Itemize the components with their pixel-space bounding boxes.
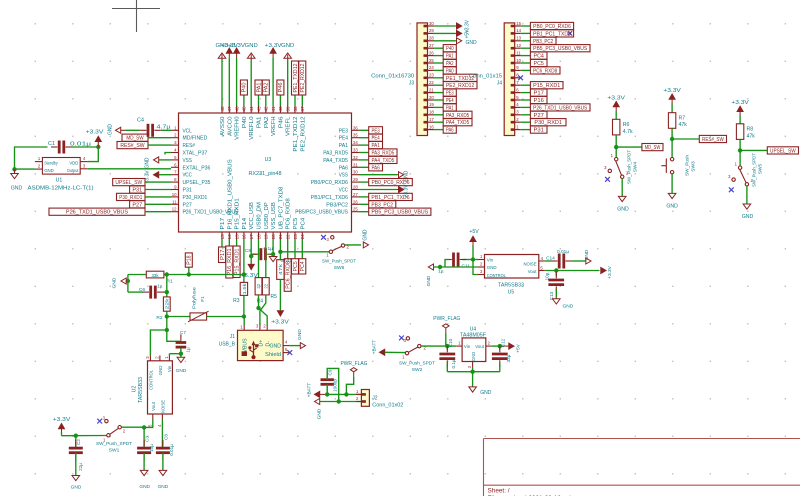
svg-text:R7: R7 xyxy=(679,115,686,121)
junction C13 node xyxy=(554,268,558,272)
power +3.3V xyxy=(86,130,104,148)
svg-text:+BATT: +BATT xyxy=(307,383,313,398)
svg-text:MD_SW: MD_SW xyxy=(645,145,661,151)
svg-text:47k: 47k xyxy=(747,133,756,139)
power +3.3V (J3 pin30) xyxy=(434,19,471,33)
wire SW2 to Vin xyxy=(421,345,456,347)
svg-text:P27: P27 xyxy=(132,202,142,208)
svg-text:TA48M05F: TA48M05F xyxy=(460,333,486,339)
svg-text:C2: C2 xyxy=(76,439,81,445)
label UPSEL_SW xyxy=(113,179,171,187)
svg-text:VSS: VSS xyxy=(339,173,349,179)
ground (SW6) xyxy=(345,229,369,248)
svg-text:SW1: SW1 xyxy=(109,448,120,454)
svg-text:SW_Push_SPDT: SW_Push_SPDT xyxy=(627,150,633,184)
power GND arrow at VSS pin5 xyxy=(145,157,172,169)
power GND (top pin 44) xyxy=(245,43,258,106)
power flag PWR_FLAG (U4) xyxy=(433,316,460,346)
label P27 (J4 pin3) xyxy=(521,111,547,119)
wire F1 to VBUS xyxy=(207,317,245,326)
svg-text:0.1µ: 0.1µ xyxy=(264,246,274,252)
svg-text:P30_RXD1: P30_RXD1 xyxy=(534,120,562,126)
junction F1 node xyxy=(165,314,169,318)
svg-text:14: 14 xyxy=(227,234,232,240)
svg-text:34: 34 xyxy=(353,140,358,145)
label PC5 (U3 pin23) xyxy=(292,240,299,275)
svg-text:R6: R6 xyxy=(623,122,630,128)
capacitor C8 0.01µ xyxy=(156,434,174,461)
svg-text:27: 27 xyxy=(429,43,434,48)
svg-text:C7: C7 xyxy=(180,330,186,336)
svg-text:P17: P17 xyxy=(534,91,545,97)
svg-text:P30_RXD1: P30_RXD1 xyxy=(183,195,208,201)
label PE1_TXD12 (top) xyxy=(292,61,299,106)
power flag PWR_FLAG (J2) xyxy=(341,361,368,395)
svg-text:P40: P40 xyxy=(446,46,454,52)
svg-text:21: 21 xyxy=(278,234,283,240)
svg-text:47: 47 xyxy=(227,106,232,112)
svg-text:TAR5SB33: TAR5SB33 xyxy=(498,283,524,289)
svg-text:PA4_TXD5: PA4_TXD5 xyxy=(372,158,395,164)
svg-text:+BATT: +BATT xyxy=(371,340,377,355)
svg-text:C8: C8 xyxy=(245,248,251,254)
label P40 (top) xyxy=(240,80,247,106)
svg-text:XTAL_P37: XTAL_P37 xyxy=(183,151,208,157)
svg-text:39: 39 xyxy=(286,106,291,112)
svg-text:41: 41 xyxy=(271,106,276,112)
power +3.3V arrow at VCC pin7 xyxy=(145,170,172,184)
junction flag node xyxy=(344,392,348,396)
label P18 xyxy=(185,253,192,275)
capacitor C10 0.1µ xyxy=(439,338,456,368)
svg-text:USB_B: USB_B xyxy=(219,341,236,347)
svg-text:+3.3V: +3.3V xyxy=(265,43,283,49)
label PC5 (J4 pin10) xyxy=(521,59,547,67)
switch SW4 SW_Push_SPDT xyxy=(604,147,638,184)
regulator U2 TAR5SB33 xyxy=(132,356,173,427)
svg-text:VREFH0: VREFH0 xyxy=(235,117,241,140)
power +3.3V down (pin21) xyxy=(271,279,289,325)
svg-text:13: 13 xyxy=(516,36,521,41)
svg-text:PB5_PC3_USB0_VBUS: PB5_PC3_USB0_VBUS xyxy=(533,46,588,52)
svg-text:4.7k: 4.7k xyxy=(623,129,633,135)
power +5V (U4 out) xyxy=(503,343,522,353)
ground xyxy=(11,169,23,191)
svg-text:GND: GND xyxy=(145,157,151,169)
svg-text:33µ: 33µ xyxy=(506,354,511,362)
svg-text:22: 22 xyxy=(429,80,434,85)
svg-text:+3.3V: +3.3V xyxy=(228,43,246,49)
svg-text:+3.3V: +3.3V xyxy=(607,265,613,278)
label PA3_RXD5 (J3 pin18) xyxy=(434,111,473,119)
svg-text:Vin: Vin xyxy=(464,344,471,349)
capacitor C12 33µ xyxy=(492,338,511,366)
svg-text:16: 16 xyxy=(429,124,434,129)
ground (SW5) xyxy=(742,186,754,220)
svg-text:27: 27 xyxy=(353,192,358,197)
svg-text:PWR_FLAG: PWR_FLAG xyxy=(433,316,460,322)
svg-text:PA4_TXD5: PA4_TXD5 xyxy=(446,120,469,126)
label PA6 (J3 pin16) xyxy=(434,126,457,134)
svg-text:RES#: RES# xyxy=(183,143,195,149)
svg-text:PC4: PC4 xyxy=(534,54,545,60)
svg-text:UPSEL_SW: UPSEL_SW xyxy=(115,180,142,186)
svg-text:GND: GND xyxy=(466,40,478,46)
wire UB_PC7 pin21 xyxy=(279,240,281,252)
svg-text:Polyfuse: Polyfuse xyxy=(192,287,198,309)
capacitor C5 1µ xyxy=(128,284,167,299)
wire C1 left to GND xyxy=(15,147,48,169)
svg-text:25: 25 xyxy=(353,207,358,212)
svg-text:R3: R3 xyxy=(233,298,240,304)
svg-text:J1: J1 xyxy=(230,334,236,340)
svg-text:P31: P31 xyxy=(183,188,192,194)
wire 33k rail xyxy=(128,274,244,276)
svg-text:UB_PC7_TXD8: UB_PC7_TXD8 xyxy=(278,187,284,230)
label P26_TXD1_USB0_VBUS xyxy=(49,208,171,216)
svg-text:R8: R8 xyxy=(747,127,754,133)
wire Vin/CONTROL xyxy=(473,260,478,275)
svg-text:PE2_RXD12: PE2_RXD12 xyxy=(446,83,475,89)
svg-text:VSS: VSS xyxy=(183,158,193,164)
svg-text:MD/FINED: MD/FINED xyxy=(183,136,208,142)
svg-text:P30_RXD1: P30_RXD1 xyxy=(119,195,142,201)
svg-text:SW_Push: SW_Push xyxy=(685,155,691,176)
svg-text:C3: C3 xyxy=(145,436,150,442)
label P26_TXD1_USB0_VBUS (J4 pin4) xyxy=(521,104,590,112)
svg-text:R4: R4 xyxy=(257,299,264,305)
svg-text:Vin: Vin xyxy=(167,365,172,372)
svg-text:PA1: PA1 xyxy=(446,54,454,60)
junction VCC_USB xyxy=(249,254,253,258)
no-connect J1 Shield xyxy=(287,350,292,355)
svg-text:36: 36 xyxy=(353,125,358,130)
svg-text:+5V: +5V xyxy=(516,343,522,352)
svg-text:GND: GND xyxy=(584,249,590,260)
label MD_SW xyxy=(122,134,171,142)
svg-text:GND: GND xyxy=(176,368,187,374)
svg-text:C4: C4 xyxy=(137,118,144,124)
svg-text:47k: 47k xyxy=(679,122,688,128)
wire NOISE to C8b xyxy=(161,420,163,448)
label PE4 (U3 pin35) xyxy=(359,134,383,142)
svg-text:+5V: +5V xyxy=(469,229,479,235)
svg-text:PE4: PE4 xyxy=(339,136,348,142)
svg-text:+3.3V: +3.3V xyxy=(86,130,104,136)
svg-text:45: 45 xyxy=(242,106,247,112)
svg-text:GND: GND xyxy=(108,124,114,136)
svg-text:PB1_PC1_TXD6: PB1_PC1_TXD6 xyxy=(371,195,409,201)
ground (rail left) xyxy=(112,275,131,293)
svg-text:Conn_01x16730: Conn_01x16730 xyxy=(371,74,414,80)
svg-text:33: 33 xyxy=(353,148,358,153)
svg-text:P15_RXD1: P15_RXD1 xyxy=(235,198,241,229)
label PE2_RXD12 (top) xyxy=(299,61,306,106)
ground (C13) xyxy=(553,289,574,310)
svg-text:GND: GND xyxy=(112,277,118,288)
power GND (U3 pin30) xyxy=(359,170,410,182)
resistor R2 22k xyxy=(156,297,170,321)
label PA1 (U3 pin34) xyxy=(359,142,383,150)
svg-text:P46: P46 xyxy=(278,117,284,129)
svg-text:20: 20 xyxy=(429,95,434,100)
svg-text:PC5: PC5 xyxy=(293,218,299,230)
junction rail/R2 xyxy=(165,272,169,276)
svg-text:NOISE: NOISE xyxy=(160,400,165,413)
label P16_RXD1 (U3 pin14) xyxy=(226,240,233,279)
svg-text:GND: GND xyxy=(71,485,82,491)
svg-text:PE4: PE4 xyxy=(371,136,379,142)
svg-text:U2: U2 xyxy=(132,386,138,393)
svg-text:SW_Push_SPDT: SW_Push_SPDT xyxy=(752,153,758,187)
erc marker J4 pin14 xyxy=(568,31,572,35)
svg-text:20: 20 xyxy=(271,234,276,240)
junction gnd rail xyxy=(470,370,474,374)
label PB5_PC3_USB0_VBUS (J4 pin12) xyxy=(521,45,590,53)
svg-text:47k: 47k xyxy=(278,263,283,275)
junction C11/GND xyxy=(438,265,442,269)
svg-text:43: 43 xyxy=(256,106,261,112)
wire P14 to R3 xyxy=(243,240,245,283)
svg-text:Conn_01x02: Conn_01x02 xyxy=(372,402,403,408)
svg-text:GND: GND xyxy=(487,265,497,270)
svg-text:22: 22 xyxy=(256,283,261,288)
svg-text:GND: GND xyxy=(742,214,754,220)
ground (SW4) xyxy=(617,179,629,213)
svg-text:TAR5SB33: TAR5SB33 xyxy=(138,377,144,403)
svg-text:21: 21 xyxy=(429,87,434,92)
capacitor C3 10µ xyxy=(137,427,154,461)
wire VCC_USB pin17 xyxy=(250,240,252,266)
label PE3 (J3 pin21) xyxy=(434,89,457,97)
resistor R 47k (pin21) xyxy=(277,260,284,280)
wire C10 to gnd rail xyxy=(447,363,500,372)
usb connector J1 USB_B xyxy=(219,324,290,361)
svg-text:P40: P40 xyxy=(242,117,248,129)
svg-text:C6: C6 xyxy=(139,287,145,293)
svg-text:R5: R5 xyxy=(271,294,278,300)
svg-text:U5: U5 xyxy=(508,289,515,295)
wire Vout to node xyxy=(144,420,153,428)
junction MD_SW node xyxy=(614,145,618,149)
svg-text:+3.3V: +3.3V xyxy=(271,320,289,326)
svg-text:11: 11 xyxy=(172,199,177,204)
switch SW1 SW_Push_SPDT xyxy=(96,416,132,454)
svg-text:R2: R2 xyxy=(156,315,162,321)
label PC6_RXD8 (J4 pin9) xyxy=(521,67,560,75)
svg-text:PB1/PC1_TXD6: PB1/PC1_TXD6 xyxy=(311,195,348,201)
svg-text:29: 29 xyxy=(353,177,358,182)
svg-text:UPSEL_P35: UPSEL_P35 xyxy=(183,180,211,186)
junction C10 node xyxy=(445,344,449,348)
svg-text:PC4: PC4 xyxy=(300,218,306,230)
svg-text:PB3_PC2: PB3_PC2 xyxy=(533,39,553,45)
svg-text:GND: GND xyxy=(471,352,476,361)
junction P14/R1 node xyxy=(242,272,246,276)
connector J3 xyxy=(371,21,434,136)
sheet origin crosshair xyxy=(112,0,160,32)
capacitor C9 1000p xyxy=(321,369,338,394)
svg-text:P16_RXD1_USB0_VBUS: P16_RXD1_USB0_VBUS xyxy=(227,159,233,230)
svg-text:RES#_SW: RES#_SW xyxy=(120,143,144,149)
svg-text:PE2_RXD12: PE2_RXD12 xyxy=(300,63,306,92)
wire U1 GND pin2 xyxy=(15,168,35,170)
svg-text:31: 31 xyxy=(353,162,358,167)
svg-text:30: 30 xyxy=(353,170,358,175)
label P30_RXD1 xyxy=(117,193,172,201)
svg-text:PB0_PC0_RXD6: PB0_PC0_RXD6 xyxy=(533,24,571,30)
power +5V (J3 pin29) xyxy=(434,29,471,39)
label MD_SW (switch) xyxy=(616,144,663,152)
resistor R4 22 xyxy=(255,278,263,305)
resistor R1 33k xyxy=(146,271,173,284)
wire Vout node xyxy=(492,345,503,347)
svg-text:23: 23 xyxy=(429,73,434,78)
label PA6 (U3 pin31) xyxy=(359,164,383,172)
resistor R6 4.7k xyxy=(613,119,634,135)
svg-text:C10: C10 xyxy=(448,338,453,347)
wire C9 top loop xyxy=(327,368,339,401)
svg-text:SW_Push_SPDT: SW_Push_SPDT xyxy=(322,259,356,265)
svg-text:RES#_SW: RES#_SW xyxy=(702,137,724,143)
junction +3.3V node xyxy=(96,145,100,149)
capacitor C11 1µ xyxy=(438,253,473,275)
wire XTAL stub xyxy=(165,153,171,155)
label PB0_PC0_RXD6 (U3 pin29) xyxy=(359,179,412,187)
svg-text:PA1: PA1 xyxy=(446,105,454,111)
label PE2_RXD12 (J3 pin22) xyxy=(434,82,478,90)
svg-text:12: 12 xyxy=(172,207,177,212)
svg-text:USB0_DP: USB0_DP xyxy=(264,202,270,230)
power +3.3V (R8) xyxy=(731,100,749,124)
svg-text:GND: GND xyxy=(480,390,492,396)
junction C9 bottom xyxy=(325,392,329,396)
junction pin21 node xyxy=(278,250,282,254)
svg-text:26: 26 xyxy=(353,199,358,204)
svg-text:VREFL: VREFL xyxy=(286,116,292,136)
svg-text:SW_Push_SPDT: SW_Push_SPDT xyxy=(96,441,132,447)
resistor R7 47k xyxy=(668,113,687,129)
regulator U4 TA48M05F xyxy=(456,327,491,369)
power GND arrow at C4 xyxy=(108,124,127,136)
junction GND node xyxy=(12,167,16,171)
resistor R3 1.5k xyxy=(233,282,248,304)
svg-text:+5V: +5V xyxy=(465,29,471,39)
svg-text:P31: P31 xyxy=(534,128,545,134)
svg-text:U1: U1 xyxy=(56,178,63,184)
svg-text:PE2_RXD12: PE2_RXD12 xyxy=(300,117,306,152)
svg-text:46: 46 xyxy=(234,106,239,112)
svg-text:19: 19 xyxy=(429,102,434,107)
svg-text:33k: 33k xyxy=(151,273,159,278)
label PA2 (top) xyxy=(262,80,269,106)
svg-text:0.01µ: 0.01µ xyxy=(557,249,569,255)
svg-text:GND: GND xyxy=(44,168,54,173)
label PC6_RXD8 (U3 pin22) xyxy=(284,240,291,292)
wire SW1 to U2 node xyxy=(121,426,144,428)
svg-text:VCC_USB: VCC_USB xyxy=(249,202,255,230)
svg-text:PA3_RXD5: PA3_RXD5 xyxy=(372,151,395,157)
svg-text:44: 44 xyxy=(249,106,254,112)
svg-text:SW_Push_SPDT: SW_Push_SPDT xyxy=(399,361,435,367)
svg-text:P26_TXD1_USB0_VBUS: P26_TXD1_USB0_VBUS xyxy=(533,105,588,111)
wire U1 VDD xyxy=(88,147,99,162)
svg-text:10: 10 xyxy=(172,192,177,197)
label P27 xyxy=(130,201,171,209)
junction C7/Vin xyxy=(179,352,183,356)
wire D+/D- crossover xyxy=(256,295,267,326)
wire C7 bottom xyxy=(180,348,182,354)
svg-text:VCL: VCL xyxy=(183,128,192,134)
svg-text:P46: P46 xyxy=(278,82,284,92)
svg-text:PC5: PC5 xyxy=(534,61,545,67)
wire R3 to VBUS xyxy=(242,295,246,318)
svg-text:PA1: PA1 xyxy=(371,143,379,149)
svg-text:J3: J3 xyxy=(409,81,415,87)
wire R47k top xyxy=(279,252,281,260)
svg-text:22: 22 xyxy=(286,234,291,240)
label PA4_TXD5 (U3 pin32) xyxy=(359,156,397,164)
svg-text:35: 35 xyxy=(353,133,358,138)
power +3.3V (U3 pin28) xyxy=(359,184,410,198)
label PE3 (U3 pin36) xyxy=(359,127,383,135)
label PB3_PC2 (U3 pin26) xyxy=(359,201,396,209)
svg-text:PB1_PC1_TXD6: PB1_PC1_TXD6 xyxy=(533,31,571,37)
wire USB0_DM pin18 xyxy=(258,240,260,278)
svg-text:28: 28 xyxy=(429,36,434,41)
power GND (J3 pin28) xyxy=(434,38,478,46)
ground (C14) xyxy=(584,249,591,264)
svg-text:17: 17 xyxy=(249,234,254,240)
wire R2 to F1 rail xyxy=(166,311,168,330)
connector J4 xyxy=(469,21,522,136)
svg-text:38: 38 xyxy=(293,106,298,112)
power +3.3V (U5 out) xyxy=(601,265,613,278)
svg-text:Vout: Vout xyxy=(151,401,156,411)
wire R6 to node xyxy=(615,135,617,147)
svg-text:19: 19 xyxy=(264,234,269,240)
power +3.3V (R7) xyxy=(663,88,681,113)
svg-text:16: 16 xyxy=(242,234,247,240)
svg-text:15: 15 xyxy=(516,21,521,26)
label PB1_PC1_TXD6 (J4 pin14) xyxy=(521,30,574,38)
capacitor C14 0.01µ xyxy=(545,249,585,269)
svg-text:RX231_pin48: RX231_pin48 xyxy=(249,171,282,177)
svg-text:PE1_TXD12: PE1_TXD12 xyxy=(293,117,299,152)
svg-text:15: 15 xyxy=(234,234,239,240)
label PA2 (J3 pin25) xyxy=(434,59,457,67)
svg-text:GND: GND xyxy=(426,275,432,286)
label PA1 (top) xyxy=(255,80,262,106)
svg-text:30: 30 xyxy=(429,21,434,26)
ground (U5 GND pin2) xyxy=(426,264,478,286)
svg-text:32: 32 xyxy=(353,155,358,160)
junction rail/P18 xyxy=(187,272,191,276)
svg-text:GND: GND xyxy=(158,484,169,490)
label PA3_RXD5 (U3 pin33) xyxy=(359,149,397,157)
svg-text:12: 12 xyxy=(516,43,521,48)
resistor R5 22 xyxy=(262,278,277,300)
svg-text:11: 11 xyxy=(516,50,521,55)
svg-text:NOISE: NOISE xyxy=(524,262,537,267)
svg-text:SW3: SW3 xyxy=(691,161,697,172)
svg-text:C12: C12 xyxy=(500,338,505,347)
label P30_RXD1 (J4 pin2) xyxy=(521,119,566,127)
junction rail to U2 node xyxy=(165,328,169,332)
svg-text:GND: GND xyxy=(281,43,294,49)
svg-text:24: 24 xyxy=(429,65,434,70)
wire R7 to node xyxy=(671,128,673,139)
